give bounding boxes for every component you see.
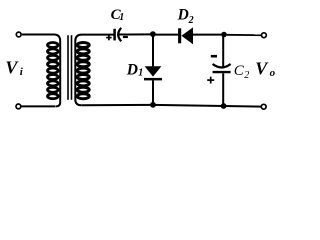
svg-text:2: 2 <box>244 70 249 81</box>
transformer core <box>68 35 72 100</box>
input terminal bottom <box>16 104 21 109</box>
svg-text:D: D <box>177 6 189 23</box>
capacitor C1 <box>115 28 122 41</box>
wire D2 to node B <box>193 34 222 36</box>
capacitor C2 <box>213 64 231 72</box>
transformer T1 primary winding <box>48 35 61 107</box>
svg-text:1: 1 <box>138 68 143 79</box>
bottom rail secondary to output <box>81 105 261 107</box>
wire node B to output terminal top <box>227 34 262 36</box>
C2 plus sign <box>207 77 214 84</box>
transformer T1 secondary winding <box>75 35 89 106</box>
wire C1 to node A <box>119 33 151 35</box>
svg-text:o: o <box>270 67 276 79</box>
junction dot C2 bottom <box>221 103 227 109</box>
svg-text:V: V <box>5 58 19 78</box>
svg-text:C: C <box>234 63 245 79</box>
wire node A down to D1 <box>152 36 154 67</box>
diode D1 <box>144 66 162 80</box>
wire node B down to C2 <box>222 37 224 67</box>
svg-text:V: V <box>255 59 269 79</box>
junction dot D1 bottom <box>150 102 156 108</box>
diode D2 <box>178 27 193 44</box>
svg-text:2: 2 <box>188 15 194 26</box>
node B junction dot <box>221 32 227 38</box>
input terminal top <box>16 32 21 37</box>
svg-text:D: D <box>126 61 138 78</box>
wire C2 to bottom rail <box>222 73 224 105</box>
C1 minus sign <box>123 36 128 38</box>
wire D1 to bottom rail <box>152 80 154 104</box>
wire secondary top to C1 <box>81 34 115 36</box>
output terminal bottom <box>261 104 266 109</box>
wire input top to primary <box>22 34 55 36</box>
wire node A to D2 <box>155 34 179 36</box>
C2 minus sign <box>211 55 217 58</box>
svg-text:1: 1 <box>119 12 124 23</box>
node A junction dot <box>150 31 156 37</box>
wire primary bottom to input terminal <box>21 105 55 107</box>
C1 plus sign <box>106 35 111 40</box>
svg-text:i: i <box>20 66 24 78</box>
output terminal top <box>262 33 267 38</box>
